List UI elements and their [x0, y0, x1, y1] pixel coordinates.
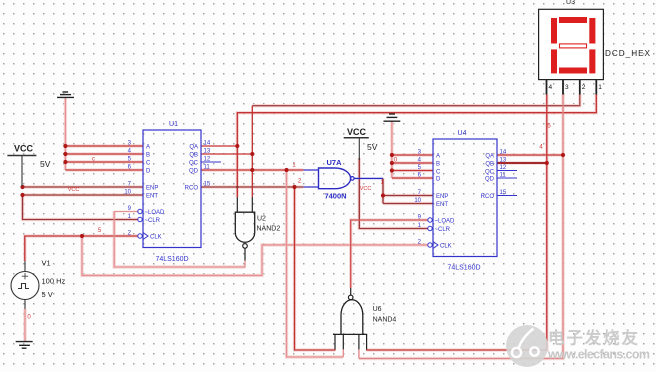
- counter U4 74LS160D: [414, 130, 517, 272]
- node: RCO crossing blob: [236, 186, 239, 189]
- U1 ~CLR bubble: [138, 217, 142, 221]
- svg-text:5V: 5V: [40, 159, 51, 169]
- svg-text:11: 11: [204, 165, 211, 171]
- svg-text:74LS160D: 74LS160D: [155, 256, 188, 263]
- wire: U1 pin C preset: [65, 161, 143, 163]
- wire: VCC branch to U1 ~CLR: [23, 195, 138, 220]
- svg-text:ENT: ENT: [436, 202, 448, 208]
- wire: QB net horizontal to display pin2: [252, 95, 580, 106]
- svg-text:c: c: [92, 157, 95, 163]
- svg-text:5 V: 5 V: [42, 290, 53, 299]
- svg-text:ENT: ENT: [146, 193, 158, 199]
- svg-text:U2: U2: [257, 216, 266, 223]
- wire: U4 QA to net 4: [497, 154, 563, 156]
- watermark elecfans logo and text: [506, 325, 650, 367]
- wire: U4 pin C preset: [392, 170, 433, 172]
- svg-text:U1: U1: [169, 121, 178, 128]
- svg-text:C: C: [436, 169, 441, 175]
- junction dots: [20, 144, 565, 238]
- svg-text:QC: QC: [189, 160, 199, 166]
- wire: U1 pin B preset: [65, 153, 143, 155]
- U4 body box: [433, 139, 497, 257]
- svg-text:100 Hz: 100 Hz: [42, 277, 66, 286]
- node: ground to C: [63, 160, 67, 164]
- clock source V1: [11, 259, 66, 310]
- ground top-left: [57, 92, 74, 97]
- wire: U4 pin A preset: [392, 154, 433, 156]
- svg-text:QC: QC: [485, 169, 495, 175]
- nand gate U7A 7400N: [303, 158, 354, 201]
- power symbol VCC mid: [344, 127, 378, 160]
- svg-text:12: 12: [204, 157, 211, 163]
- svg-text:VCC: VCC: [360, 186, 372, 192]
- svg-text:B: B: [146, 152, 150, 158]
- svg-text:15: 15: [204, 182, 211, 188]
- wire: U1 pin D preset: [65, 169, 143, 171]
- U1 ~LOAD bubble: [138, 209, 142, 213]
- counter U1 74LS160D: [124, 121, 221, 263]
- U4 ~LOAD bubble: [428, 218, 432, 222]
- wire: QB net vertical to U2 input B: [251, 106, 253, 197]
- nand gate U2 NAND2: [235, 197, 280, 261]
- node: U4 ground A: [390, 153, 394, 157]
- svg-text:CLK: CLK: [150, 234, 162, 240]
- wire: to U4 ENP: [383, 195, 433, 197]
- svg-text:2: 2: [582, 84, 586, 91]
- svg-text:C: C: [146, 160, 151, 166]
- svg-text:U6: U6: [373, 306, 382, 313]
- svg-text:10: 10: [414, 198, 421, 204]
- wire: clock branch to U4 CLK: [82, 236, 428, 275]
- wire: ground mid stem: [391, 122, 393, 179]
- segment b top-right: [589, 18, 595, 44]
- node: U7A out to ENP: [381, 193, 385, 197]
- node: VCC to ENT: [20, 193, 24, 197]
- U1 pin 12 QC stub: [201, 161, 221, 163]
- svg-text:11: 11: [500, 173, 507, 179]
- svg-text:4: 4: [549, 84, 553, 91]
- node: QB junction: [250, 152, 254, 156]
- wire: U1 QB to node: [201, 153, 252, 155]
- wire: V1 clock to U1 CLK: [25, 236, 138, 261]
- U1 body box: [143, 130, 201, 248]
- wire: RCO branch to U6 input 1: [295, 187, 336, 350]
- segment f top-left: [551, 18, 557, 44]
- node: ground to B: [63, 152, 67, 156]
- svg-text:QA: QA: [485, 153, 494, 159]
- svg-text:www.elecfans.com: www.elecfans.com: [547, 348, 650, 362]
- svg-text:QB: QB: [189, 152, 198, 158]
- wire: VCC mid to U4 ~CLR: [359, 158, 428, 229]
- ground mid (above U4): [384, 114, 401, 121]
- svg-text:A: A: [146, 144, 150, 150]
- svg-text:NAND2: NAND2: [257, 226, 281, 233]
- U1 CLK bubble and triangle: [138, 234, 142, 238]
- svg-text:10: 10: [124, 190, 131, 196]
- wire: U4 pin B preset: [392, 162, 433, 164]
- U4 ~CLR bubble: [428, 226, 432, 230]
- wire: V1 negative lead to ground: [24, 309, 26, 342]
- svg-text:13: 13: [500, 158, 507, 164]
- node: RCO to NAND4: [292, 185, 296, 189]
- svg-text:QD: QD: [485, 176, 495, 182]
- svg-text:VCC: VCC: [347, 127, 367, 137]
- wire: VCC to U1 ENT: [23, 194, 144, 196]
- node: U4 QB net: [545, 161, 549, 165]
- segment e bottom-left: [551, 49, 557, 73]
- svg-text:QA: QA: [189, 144, 198, 150]
- node: U4 ground B: [390, 161, 394, 165]
- wire: ground stem to U1 load inputs (net 0): [64, 98, 66, 171]
- wire: U6 output to U4 ~LOAD: [351, 220, 428, 288]
- svg-text:B: B: [436, 161, 440, 167]
- U4 CLK bubble and triangle: [428, 243, 432, 247]
- svg-text:74LS160D: 74LS160D: [447, 265, 480, 272]
- node: QD to NAND4: [284, 168, 288, 172]
- nand gate U6 NAND4: [333, 288, 396, 349]
- wire: to U4 ENT: [383, 203, 433, 205]
- segment g middle unlit: [560, 44, 587, 48]
- svg-text:VCC: VCC: [14, 144, 34, 154]
- svg-text:1: 1: [598, 84, 602, 91]
- svg-text:RCO: RCO: [185, 185, 199, 191]
- wire: VCC to U1 ENP: [23, 186, 144, 188]
- svg-text:12: 12: [500, 165, 507, 171]
- wire: U4 pin D preset: [392, 177, 433, 179]
- svg-text:RCO: RCO: [481, 194, 495, 200]
- svg-text:D: D: [146, 168, 151, 174]
- U4 pin names: [435, 153, 495, 249]
- svg-text:CLK: CLK: [440, 243, 452, 249]
- svg-text:ENP: ENP: [146, 185, 158, 191]
- wire: U1 RCO to U7A input 2: [201, 186, 303, 188]
- node: QA junction: [235, 144, 239, 148]
- node: VCC to ENP: [20, 185, 24, 189]
- power symbol VCC left: [7, 144, 50, 187]
- wire: U1 QD to U7A input 1: [201, 169, 303, 171]
- svg-text:14: 14: [500, 150, 507, 156]
- svg-text:ENP: ENP: [436, 194, 448, 200]
- wire: U7A output lead blue: [354, 177, 383, 179]
- display pins 4 3 2 1: [547, 80, 597, 95]
- node: ground to A: [63, 144, 67, 148]
- wire: U7A output down to U4 ENP ENT: [382, 178, 384, 203]
- svg-text:QB: QB: [485, 161, 494, 167]
- svg-text:A: A: [436, 153, 440, 159]
- node: U4 ground C: [390, 168, 394, 172]
- wire: U4 QB to net 5 thick: [497, 162, 547, 164]
- svg-text:~LOAD: ~LOAD: [145, 210, 166, 216]
- wire halo (soft bleed imitation): [23, 95, 597, 359]
- svg-text:~CLR: ~CLR: [435, 227, 451, 233]
- svg-text:13: 13: [204, 149, 211, 155]
- segment d bottom: [559, 68, 587, 74]
- node: QD junction: [250, 168, 254, 172]
- svg-text:U7A: U7A: [326, 158, 342, 167]
- segment a top: [559, 17, 587, 23]
- svg-text:D: D: [436, 176, 441, 182]
- wire: QD branch to U6 input 2: [287, 170, 344, 357]
- node: U4 QA net: [561, 153, 565, 157]
- wire: U6 input 2 stub riser: [342, 349, 344, 357]
- svg-text:DCD_HEX: DCD_HEX: [605, 49, 651, 58]
- wire: display pin4 net QB vertical: [367, 95, 547, 351]
- svg-text:~CLR: ~CLR: [145, 218, 161, 224]
- svg-text:QD: QD: [189, 168, 199, 174]
- svg-text:15: 15: [500, 190, 507, 196]
- segment c bottom-right: [589, 49, 595, 73]
- svg-text:14: 14: [204, 141, 211, 147]
- svg-text:电子发烧友: 电子发烧友: [548, 328, 639, 348]
- svg-text:7400N: 7400N: [324, 192, 346, 201]
- wire: U6 input 3 stub riser: [358, 349, 360, 358]
- svg-text:U3: U3: [566, 0, 575, 6]
- svg-text:V1: V1: [42, 259, 51, 268]
- U1 pin numbers: [124, 141, 211, 237]
- U4 pin numbers: [414, 150, 507, 246]
- wire: U2 output to U1 ~LOAD: [114, 212, 245, 268]
- svg-text:3: 3: [565, 84, 569, 91]
- wire: U1 pin A preset: [65, 145, 143, 147]
- ground at V1: [16, 342, 33, 349]
- node: clock branch: [80, 234, 84, 238]
- display U3 DCD_HEX: [539, 0, 651, 95]
- svg-text:NAND4: NAND4: [373, 317, 397, 324]
- svg-text:U4: U4: [458, 130, 467, 137]
- wire: display pin3 net QA vertical: [359, 95, 563, 359]
- svg-text:5V: 5V: [367, 142, 378, 152]
- U1 pin names: [145, 144, 199, 240]
- U4 unused output stubs QC QD RCO: [497, 171, 517, 196]
- svg-text:~LOAD: ~LOAD: [435, 218, 456, 224]
- wire: QA net vertical to U2 input A and up: [237, 95, 596, 198]
- wire: U1 QA to node: [201, 145, 237, 147]
- svg-text:VCC: VCC: [68, 187, 80, 193]
